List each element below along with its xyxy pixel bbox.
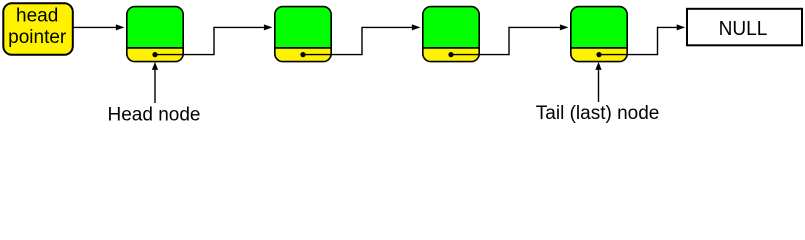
svg-text:pointer: pointer bbox=[8, 27, 67, 48]
svg-text:Tail (last) node: Tail (last) node bbox=[536, 103, 660, 124]
svg-text:NULL: NULL bbox=[719, 18, 768, 41]
svg-text:Head node: Head node bbox=[108, 104, 201, 125]
svg-text:head: head bbox=[16, 6, 58, 27]
